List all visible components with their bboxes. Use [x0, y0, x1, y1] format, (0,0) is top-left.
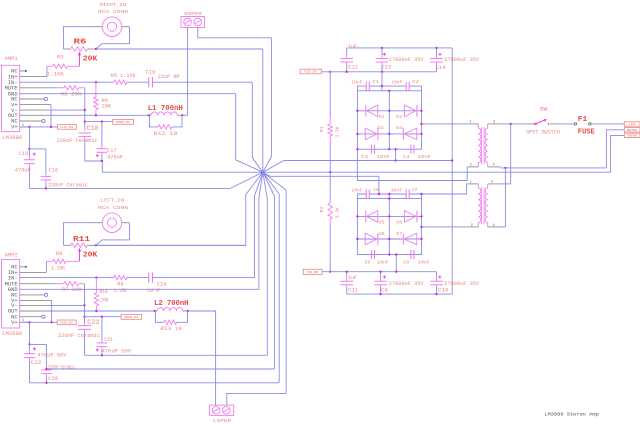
node C21 bottom	[101, 354, 103, 356]
svg-text:1uF: 1uF	[348, 44, 358, 50]
capacitor C21	[101, 317, 103, 341]
capacitor C18	[84, 122, 86, 129]
T1 winding (left)	[478, 124, 481, 167]
node C11 top	[346, 271, 348, 273]
plus mark C10	[438, 276, 441, 278]
wire star to C20-top rail	[263, 172, 275, 369]
svg-text:AMP2: AMP2	[5, 252, 18, 258]
svg-text:SW: SW	[540, 106, 547, 112]
wire bridge2 diode row1	[357, 215, 421, 217]
pin AMP2 IN- stub	[20, 277, 22, 279]
pin AMP1 NC(top) stub	[20, 70, 25, 72]
svg-text:D1: D1	[379, 114, 385, 120]
node C17 bottom	[101, 160, 103, 162]
R2 left lead	[57, 87, 64, 89]
pin AMP2 MUTE stub	[20, 283, 46, 285]
R7 right lead	[79, 283, 85, 285]
pin AMP1 IN- stub	[20, 81, 22, 83]
capacitor C11	[346, 272, 348, 277]
svg-text:C18: C18	[87, 125, 99, 132]
net label box MINUS_35V (top)	[113, 120, 134, 125]
wire pot net vertical to star	[262, 49, 264, 172]
wire AMP1 V- net	[46, 109, 85, 111]
pin AMP2 NC stub (4th)	[20, 316, 42, 318]
capacitor C8	[410, 250, 412, 259]
node C20 top	[45, 368, 47, 370]
diode D6	[377, 233, 379, 245]
node bridge2 top row feed	[378, 193, 380, 195]
potentiometer R6 body	[71, 47, 88, 51]
wire GROUND down to star rail	[611, 135, 625, 172]
svg-text:C9: C9	[381, 288, 388, 294]
svg-text:R6: R6	[74, 38, 88, 46]
R3 right lead	[68, 65, 80, 67]
svg-text:C14: C14	[436, 65, 446, 71]
LSPKR pin1 stub	[215, 401, 217, 405]
wire bridge1 top row mid	[369, 85, 406, 87]
svg-text:PWR_GND: PWR_GND	[307, 271, 318, 274]
wire AMP2 IN- net	[22, 277, 97, 279]
net label box GROUND	[624, 133, 640, 137]
svg-text:D2: D2	[396, 114, 402, 120]
wire switch to fuse	[557, 123, 574, 125]
node V+ rail / C15	[28, 126, 30, 128]
wire bridge1 bottom to star return	[395, 149, 397, 160]
node bridge2 row right	[420, 193, 422, 195]
capacitor C4	[410, 145, 412, 154]
node L1 right	[181, 114, 183, 116]
T1 pin 1 stub	[467, 123, 478, 125]
svg-text:MINUS_35V: MINUS_35V	[124, 316, 138, 319]
node OUT / R4 bottom	[95, 114, 97, 116]
svg-text:PLUS_35V: PLUS_35V	[305, 71, 318, 74]
plus mark C14	[439, 53, 442, 55]
svg-text:PLUS_35V: PLUS_35V	[61, 126, 74, 129]
svg-text:IN-: IN-	[8, 275, 18, 281]
wire fuse to LIVE	[592, 123, 624, 125]
wire bridge2 AC right to T2 pin2	[422, 226, 468, 228]
svg-text:D3: D3	[378, 125, 384, 131]
svg-text:C3: C3	[361, 154, 368, 160]
pot R6 right lead	[88, 48, 97, 50]
wire bridge2 row extension to T2 pin1	[422, 184, 468, 194]
capacitor C5	[365, 190, 367, 199]
node L2 left	[154, 310, 156, 312]
diode D1	[365, 105, 367, 117]
capacitor C10	[436, 272, 438, 277]
wire bridge1 center vertical	[388, 91, 390, 149]
wire R2 to V- line	[84, 88, 86, 110]
node V+ rail / riser	[50, 126, 52, 128]
svg-text:470uF: 470uF	[15, 168, 31, 174]
plus mark C13	[383, 53, 386, 55]
capacitor C1	[365, 82, 367, 91]
wire pot net to star (horizontal)	[96, 48, 263, 50]
wire down to C22	[29, 322, 31, 344]
svg-text:C12: C12	[348, 65, 358, 71]
wire T1 pin3 to switch	[501, 123, 529, 125]
T2 pin 2 stub	[467, 226, 478, 228]
wire LSPKR- to star	[227, 172, 286, 401]
wire star to AMP2 GND	[46, 172, 263, 289]
T2 pin 4 stub	[488, 226, 501, 228]
wire star to bridge2 feed	[263, 172, 379, 176]
wire star to C24 net	[255, 172, 263, 277]
wire riser to RSPKR+	[187, 34, 189, 116]
svg-text:4: 4	[493, 164, 495, 168]
net label box PLUS_35V	[300, 69, 321, 74]
wire pot-left up to RCA right	[63, 27, 93, 49]
node C12 bottom	[346, 71, 348, 73]
svg-text:27000uF 35V: 27000uF 35V	[389, 281, 425, 287]
R13 loop left	[155, 311, 164, 322]
wire R7 to V- line	[84, 284, 86, 306]
node L2 right	[187, 310, 189, 312]
svg-text:D8: D8	[396, 220, 402, 226]
capacitor C17	[101, 122, 103, 147]
wire bridge1 AC right to T1 pin1	[422, 123, 468, 125]
T2 pin 1 stub	[467, 183, 478, 185]
L2 right lead	[183, 310, 188, 312]
svg-text:3.3K: 3.3K	[336, 207, 341, 218]
no-connect dot AMP1 pin NC	[25, 70, 27, 72]
wire AMP2 V- net	[46, 304, 84, 306]
wire L1 out to RSPKR riser	[182, 114, 187, 116]
svg-text:2: 2	[470, 164, 472, 168]
svg-text:R2 20K: R2 20K	[61, 92, 82, 98]
svg-text:C15: C15	[19, 151, 29, 157]
wire bridge2 top row mid	[369, 193, 406, 195]
capacitor C2	[405, 82, 407, 91]
wire V- down	[84, 110, 86, 122]
T2 pin 3 stub	[488, 183, 501, 185]
svg-text:470uF: 470uF	[107, 155, 123, 161]
wire C20-top rail to star riser	[46, 368, 274, 370]
node bridge2 right AC	[420, 226, 422, 228]
wire star to C21/C23 rail	[263, 172, 268, 355]
node L1 left	[148, 114, 150, 116]
resistor R8 body	[53, 259, 66, 263]
svg-text:C10: C10	[438, 288, 449, 294]
svg-text:2: 2	[471, 224, 473, 228]
resistor R13 body	[164, 320, 177, 324]
wire ground rail (C15/C16) to star	[29, 187, 230, 189]
T1 pin 2 stub	[467, 166, 478, 168]
pin AMP1 V+ stub	[20, 104, 51, 106]
wire V+ rail (AMP2)	[21, 321, 57, 323]
capacitor C14	[436, 48, 438, 56]
svg-text:10nF: 10nF	[351, 80, 362, 86]
svg-text:220nF Ceramic: 220nF Ceramic	[48, 365, 75, 371]
wire AMP2 OUT	[46, 310, 96, 312]
node C9 bottom	[379, 293, 381, 295]
wire top cap common rail	[347, 47, 453, 49]
svg-text:NEUTRAL: NEUTRAL	[627, 129, 638, 132]
wire AMP1 MUTE to R2	[46, 87, 57, 89]
svg-text:C13: C13	[381, 65, 391, 71]
svg-text:D5: D5	[379, 220, 385, 226]
T2 winding (right)	[485, 184, 488, 227]
R12 loop left	[150, 115, 158, 127]
wire IN+ riser to R3	[46, 66, 48, 76]
RSPKR pin2 stub	[197, 28, 199, 34]
LSPKR pin2 stub	[226, 401, 228, 405]
R4 top lead	[95, 82, 97, 97]
R8 left lead	[46, 260, 52, 262]
wire star diagonal to positive-rail return	[263, 161, 284, 173]
svg-text:3: 3	[491, 181, 493, 185]
svg-text:R13 10: R13 10	[160, 326, 182, 332]
resistor R7 body	[64, 282, 79, 286]
svg-text:R10: R10	[100, 289, 108, 295]
node bridge1 right AC	[420, 123, 422, 125]
RSPKR pin1 stub	[187, 28, 189, 34]
wire bridge2 top row left	[357, 194, 366, 199]
wire C21/C23 ground rail to star riser	[85, 354, 268, 356]
svg-text:20K: 20K	[83, 56, 98, 64]
capacitor C24	[148, 273, 150, 283]
pin AMP1 MUTE stub	[20, 87, 46, 89]
wire bridge2 bottom to -rail	[395, 255, 397, 272]
node V+ rail / C22	[28, 321, 30, 323]
node rail drop / star return	[451, 159, 453, 161]
node C14 top	[435, 47, 437, 49]
inductor L2 coil	[157, 308, 183, 311]
svg-text:R8: R8	[56, 251, 62, 257]
svg-text:R7 20K: R7 20K	[62, 287, 83, 293]
svg-text:MINUS_35V: MINUS_35V	[116, 121, 130, 124]
wire down to C15	[28, 127, 30, 149]
wire V+ riser	[50, 105, 52, 127]
svg-text:FUSE: FUSE	[578, 128, 595, 136]
resistor R9 body	[114, 275, 127, 279]
svg-text:PLUS_35V: PLUS_35V	[60, 321, 73, 324]
pin AMP1 GND stub	[20, 93, 22, 95]
wire L2 out to LSPKR riser	[188, 311, 216, 401]
pin AMP2 V+ stub	[20, 299, 52, 301]
node IN- / R10 top	[95, 276, 97, 278]
capacitor C23	[84, 317, 86, 324]
node C13 bottom on +rail	[381, 71, 383, 73]
wire -35V rail (cap top)	[330, 271, 435, 273]
potentiometer R11 body	[71, 243, 88, 247]
net label box PWR_GND	[303, 269, 322, 274]
resistor R2 body	[64, 86, 79, 90]
svg-text:C2: C2	[412, 79, 419, 85]
svg-text:LM3886: LM3886	[2, 331, 22, 337]
node primary parallel tie (live)	[510, 123, 512, 125]
node bridge1 output / star return	[394, 159, 396, 161]
svg-text:10nF: 10nF	[351, 187, 362, 193]
switch SW contact nub	[548, 123, 549, 125]
op-amp AMP1 LM3886 IC box	[2, 65, 20, 131]
svg-text:R9: R9	[117, 281, 123, 287]
wire star ground rail to AC GROUND	[263, 171, 611, 173]
R12 loop right	[172, 115, 182, 127]
pin AMP1 IN+ stub	[20, 76, 47, 78]
R8 right lead	[66, 260, 79, 262]
pot R6 wiper arrow	[79, 54, 81, 67]
wire AMP1 GND horizontal	[46, 93, 236, 95]
node V- / R7	[83, 304, 85, 306]
wire AMP2 MUTE to R7	[46, 283, 57, 285]
inductor L1 coil	[151, 112, 177, 115]
svg-text:RIGHT_IN: RIGHT_IN	[100, 2, 127, 8]
svg-text:1: 1	[470, 121, 472, 125]
svg-text:5: 5	[22, 123, 24, 127]
svg-text:R2: R2	[320, 206, 325, 212]
wire AMP1 IN- net	[22, 81, 96, 83]
svg-text:C24: C24	[157, 282, 167, 288]
wire bridge1 top row left	[357, 86, 366, 91]
wire V- to net label	[85, 121, 113, 123]
capacitor C7	[405, 190, 407, 199]
svg-text:27000uF 35V: 27000uF 35V	[444, 281, 480, 287]
wire R9 to C24	[127, 277, 149, 279]
svg-text:20K: 20K	[100, 298, 109, 304]
no-connect circle AMP2	[44, 293, 47, 296]
wire V+ riser (AMP2)	[51, 300, 53, 322]
pot R11 wiper arrow	[79, 250, 81, 261]
wire pot-left up to RCA left	[63, 223, 93, 246]
svg-text:C8: C8	[403, 259, 409, 265]
svg-text:4: 4	[493, 224, 495, 228]
net label box NEUTRAL	[624, 128, 640, 132]
wire V- down (AMP2)	[84, 305, 86, 316]
pin AMP2 NC(top) stub	[20, 266, 25, 268]
node C17 top	[101, 120, 103, 122]
wire T1 pin4 to NEUTRAL drop	[501, 167, 607, 169]
wire bottom cap common rail	[347, 293, 453, 295]
wire AMP1 GND to star	[236, 94, 263, 173]
node OUT / R10 bottom	[95, 310, 97, 312]
wire C13 to bridge1 row	[381, 72, 383, 86]
svg-text:GROUND: GROUND	[627, 134, 637, 137]
diode D2	[416, 105, 418, 117]
T2 core line 2	[483, 187, 485, 224]
T1 pin 3 stub	[488, 123, 501, 125]
wire diagonal rail to star	[230, 172, 262, 188]
connector LEFT_IN RCA jack	[102, 213, 122, 233]
capacitor C22	[29, 344, 31, 351]
wire bridge1 top row right	[409, 86, 421, 91]
switch SW right pin	[550, 123, 557, 125]
T1 pin 4 stub	[488, 166, 501, 168]
R7 left lead	[57, 283, 64, 285]
wire C24 to star net	[153, 277, 255, 279]
node V+ rail / riser (AMP2)	[50, 321, 52, 323]
wire branch to C16	[29, 148, 46, 150]
R13 loop right	[177, 311, 188, 322]
svg-text:10nf: 10nf	[391, 80, 402, 86]
RCA left: right pin stub	[122, 222, 130, 224]
svg-text:C7: C7	[412, 187, 417, 193]
resistor R4 body	[94, 97, 98, 110]
svg-text:3.3K: 3.3K	[336, 126, 341, 137]
svg-text:AMP1: AMP1	[5, 56, 18, 62]
svg-text:L2 700nH: L2 700nH	[154, 300, 189, 308]
wire C19 net to star	[252, 82, 262, 172]
T1 core line 2	[483, 127, 485, 164]
wire V+ rail (AMP1)	[21, 126, 58, 128]
svg-text:D6: D6	[379, 231, 385, 237]
svg-text:C1: C1	[372, 79, 379, 85]
diode D5	[365, 211, 367, 223]
svg-text:C19: C19	[146, 70, 156, 76]
wire PWR_GND box attach	[322, 271, 330, 273]
wire IN+ riser to R8	[45, 261, 47, 272]
connector RIGHT_IN RCA jack	[102, 17, 122, 37]
wire common rail right drop (x=452)	[451, 48, 453, 294]
pin AMP1 OUT stub	[20, 114, 46, 116]
plus mark C9	[383, 276, 386, 278]
wire C19 to star net	[153, 81, 253, 83]
node V- / R2	[84, 109, 86, 111]
wire star to R11 pot net	[96, 172, 263, 245]
capacitor C12	[346, 48, 348, 56]
svg-text:SPST SWITCH: SPST SWITCH	[526, 130, 560, 136]
diode D4	[402, 128, 404, 140]
wire down to C16	[45, 149, 47, 175]
diode D7	[402, 233, 404, 245]
capacitor C20	[41, 369, 52, 371]
T2 winding (left)	[478, 184, 481, 227]
svg-text:22uF NP: 22uF NP	[158, 74, 180, 80]
svg-text:220nF Ceramic: 220nF Ceramic	[58, 333, 100, 339]
node bridge2 output on rail	[395, 271, 397, 273]
connector LSPKR	[210, 405, 234, 415]
wire RCA left down to pot junction	[96, 223, 130, 246]
wire star to C22/C20 rail	[263, 172, 279, 383]
pot R6 left lead	[63, 48, 70, 50]
pin AMP2 OUT stub	[20, 310, 46, 312]
wire down to C20	[45, 344, 47, 369]
bridge rectifier 2 outline	[357, 199, 421, 255]
pin AMP1 V- stub	[20, 109, 46, 111]
svg-text:10nF: 10nF	[377, 154, 390, 160]
wire C22/C20 ground rail to star riser	[30, 382, 280, 384]
svg-text:10nF: 10nF	[377, 259, 389, 265]
svg-text:20K: 20K	[102, 103, 112, 109]
svg-text:LSPKR: LSPKR	[213, 418, 231, 424]
svg-text:1: 1	[470, 181, 472, 185]
no-connect circle AMP1	[44, 97, 47, 100]
svg-text:LM3886: LM3886	[2, 135, 22, 141]
wire bridge1 diode row1	[357, 110, 421, 112]
pin AMP1 V+(5) stub	[20, 126, 30, 128]
wire IN- to R5	[96, 81, 114, 83]
no-connect dot AMP2	[25, 266, 27, 268]
svg-text:20K: 20K	[83, 251, 98, 259]
plus mark C21	[96, 349, 99, 351]
wire AMP1 GND	[22, 93, 46, 95]
node R1 bottom on ground rail	[329, 171, 331, 173]
RCA right: left pin stub	[94, 26, 103, 28]
wire positive-rail return horizontal	[284, 160, 452, 162]
L1 left lead	[149, 114, 151, 116]
RCA left: left pin stub	[94, 222, 103, 224]
bridge rectifier 1 outline	[357, 91, 421, 149]
node C15/C16 branch	[28, 148, 30, 150]
switch SW SPST	[534, 123, 536, 125]
pin AMP1 NC stub (4th)	[20, 120, 42, 122]
svg-text:R1: R1	[320, 126, 325, 132]
R4 bottom lead	[95, 110, 97, 116]
resistor R10 body	[94, 293, 98, 306]
wire star feed into bridge2	[378, 176, 380, 194]
svg-text:LEFT_IN: LEFT_IN	[101, 198, 124, 204]
wire RCA right down to pot junction	[96, 27, 130, 49]
